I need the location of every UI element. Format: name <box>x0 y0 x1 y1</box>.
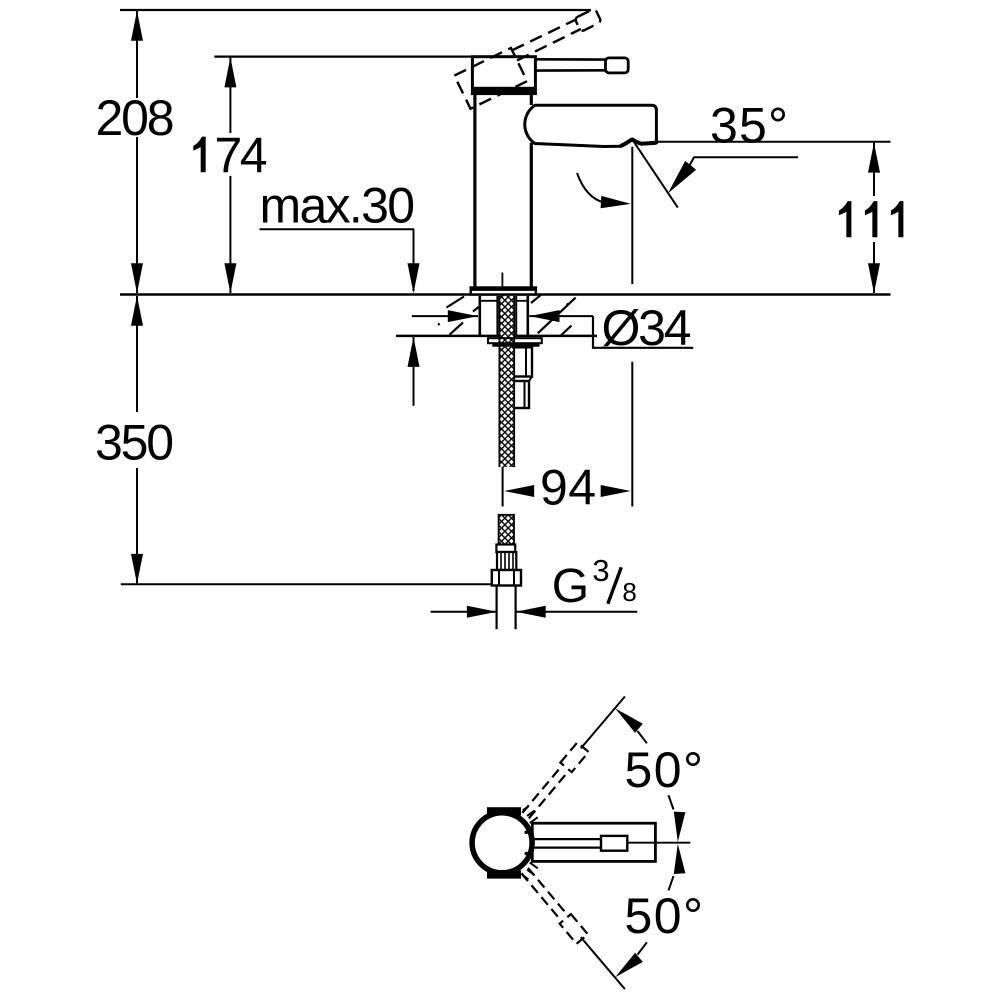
svg-text:50°: 50° <box>625 888 704 944</box>
grip box <box>601 836 627 851</box>
spout outline <box>525 105 657 146</box>
counter top line <box>120 293 891 296</box>
35deg leader horizontal <box>689 157 798 166</box>
width dim under counter (shank) <box>412 315 478 317</box>
upper braided hose <box>499 296 514 467</box>
swing ticks <box>523 806 538 879</box>
lever outer rect <box>532 823 655 861</box>
cartridge head <box>472 57 535 94</box>
body circle <box>472 813 532 873</box>
hatching left of shank <box>438 295 576 336</box>
crimp ferrule with stripes <box>497 552 516 570</box>
svg-text:8: 8 <box>622 577 636 607</box>
arc segments <box>638 731 647 743</box>
arrowheads <box>131 11 880 977</box>
svg-text:3: 3 <box>592 553 609 588</box>
stream vertical line <box>631 147 633 284</box>
base plate <box>471 288 536 295</box>
svg-text:G: G <box>552 560 589 613</box>
111 dim line <box>873 142 875 196</box>
35deg diagonal stream line <box>632 140 678 208</box>
lever bar <box>535 58 606 61</box>
lever grip <box>606 58 629 73</box>
lever shaft lines <box>534 838 602 840</box>
350 bottom line <box>121 583 492 585</box>
shank through counter <box>478 296 481 336</box>
swing arc <box>577 173 604 203</box>
body centerline <box>501 273 503 297</box>
washer below counter (drawn over braid) <box>488 338 542 343</box>
spout wavy outlet emphasis <box>620 140 656 147</box>
collar <box>496 545 515 553</box>
top reference line (208) <box>120 9 591 11</box>
O34 leader <box>593 316 693 348</box>
base plate flats <box>487 807 521 815</box>
lower tube <box>496 586 498 630</box>
svg-text:94: 94 <box>540 459 596 515</box>
svg-text:74: 74 <box>215 128 268 184</box>
svg-text:350: 350 <box>95 414 174 470</box>
G3/8 dim lines <box>431 611 497 613</box>
svg-text:Ø34: Ø34 <box>602 300 692 356</box>
svg-text:max.30: max.30 <box>260 177 416 233</box>
svg-text:50°: 50° <box>625 742 704 798</box>
max.30 leader <box>260 228 415 230</box>
lower braided hose segment <box>499 515 514 545</box>
counter lower line <box>396 335 597 338</box>
screw dots <box>525 831 529 835</box>
svg-text:35°: 35° <box>710 98 788 154</box>
350 dim line <box>136 296 138 412</box>
G3/8 fraction slash <box>608 567 622 604</box>
dim 174 line <box>229 57 231 133</box>
hatching right of shank <box>531 295 541 303</box>
svg-text:208: 208 <box>96 90 175 146</box>
111 top line (35deg baseline) <box>658 141 891 143</box>
body walls <box>473 94 476 288</box>
174 reference line <box>214 55 472 57</box>
dashed swung levers <box>519 742 589 943</box>
custom digit 1 glyphs (Helvetica style, no foot serif) <box>193 137 903 238</box>
mounting nut right of hose <box>513 347 532 376</box>
94 dim ticks <box>502 466 504 507</box>
hex nut <box>492 570 521 586</box>
centerline <box>627 842 690 844</box>
50deg extension lines <box>581 697 625 749</box>
dim 208 line <box>136 10 138 98</box>
